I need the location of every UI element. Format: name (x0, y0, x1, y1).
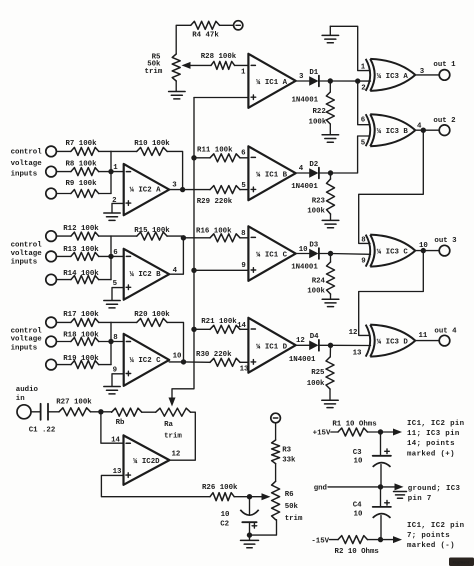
svg-text:Ra: Ra (164, 421, 173, 429)
svg-text:ground; IC3: ground; IC3 (408, 485, 461, 493)
resistor R15 100k (111, 227, 183, 274)
resistor R27 100k (56, 398, 101, 416)
svg-text:R23: R23 (312, 198, 326, 206)
svg-text:12: 12 (172, 450, 181, 458)
svg-text:5: 5 (361, 139, 366, 147)
svg-text:C3: C3 (353, 449, 362, 457)
arrow +15V distribution (381, 429, 403, 436)
svg-text:100k: 100k (307, 208, 325, 216)
ground under R25 (322, 400, 338, 407)
node gnd (378, 484, 383, 489)
svg-text:D4: D4 (310, 333, 319, 341)
node audio junction (98, 409, 103, 414)
svg-text:¼ IC3 B: ¼ IC3 B (377, 128, 409, 136)
svg-text:D3: D3 (309, 241, 318, 249)
rail node R11 (191, 155, 196, 160)
wire IC2C pin9 + ground (112, 367, 124, 387)
svg-text:11: 11 (419, 332, 428, 340)
wire C1 to R27 (48, 411, 59, 413)
svg-text:1: 1 (361, 64, 366, 72)
svg-text:IC1, IC2 pin: IC1, IC2 pin (407, 522, 464, 530)
rail node pin9 (191, 268, 196, 273)
svg-text:R26 100k: R26 100k (202, 484, 238, 492)
svg-text:¼ IC1 C: ¼ IC1 C (256, 252, 288, 260)
diode D2 1N4001 (291, 161, 319, 191)
svg-text:33k: 33k (282, 457, 296, 465)
input terminal + resistor R9 100k (46, 180, 111, 199)
resistor Rb (101, 408, 142, 427)
svg-text:6: 6 (241, 150, 246, 158)
xor gate IC3 A (361, 59, 425, 93)
audio in text (16, 386, 39, 403)
wire R28 to IC1A pin1 (235, 64, 249, 66)
svg-text:trim: trim (145, 68, 163, 76)
svg-text:9: 9 (241, 262, 245, 270)
svg-text:7; points: 7; points (407, 532, 450, 540)
node D1 (328, 78, 333, 83)
svg-text:R11 100k: R11 100k (197, 146, 233, 154)
gnd label (314, 485, 327, 493)
resistor R3 33k (272, 440, 296, 465)
svg-text:marked (-): marked (-) (407, 542, 455, 550)
terminal out 3 (434, 237, 457, 256)
svg-text:6: 6 (361, 117, 366, 125)
-15V label (311, 537, 329, 545)
resistor R30 220k (184, 351, 249, 366)
wire R4 left to R5 top (176, 25, 191, 54)
cascade wire out3 to IC3D pin12 (359, 251, 424, 336)
svg-text:3: 3 (299, 73, 304, 81)
node R16 tap (181, 235, 186, 240)
svg-text:3: 3 (172, 181, 177, 189)
svg-text:50k: 50k (285, 503, 299, 511)
svg-text:10: 10 (173, 352, 182, 360)
node line IC2A inputs (110, 151, 112, 193)
wire D2 node to IC3B pin5 (331, 136, 371, 173)
node +15V (378, 429, 383, 434)
wire IC1D output (296, 344, 310, 346)
svg-text:R9 100k: R9 100k (65, 180, 97, 188)
ground under R24 (322, 299, 339, 306)
svg-text:pin 7: pin 7 (408, 495, 432, 503)
svg-text:control: control (11, 241, 43, 249)
svg-text:¼ IC2D: ¼ IC2D (133, 458, 160, 466)
text -15V destinations (407, 522, 464, 550)
svg-text:R1 10 Ohms: R1 10 Ohms (332, 421, 376, 429)
node D2 (328, 170, 333, 175)
wire C3 to gnd node (380, 465, 382, 487)
terminal out 2 (433, 117, 455, 136)
rail arrow onto Ra wiper (169, 398, 176, 407)
resistor R23 100k (307, 173, 334, 220)
svg-text:inputs: inputs (11, 258, 38, 266)
wire IC1B output (296, 172, 310, 174)
svg-text:+15V: +15V (313, 430, 331, 438)
pin 1 label IC1A (241, 69, 246, 77)
node -15V (378, 537, 383, 542)
wire audio node to IC2D pin14 (101, 412, 124, 443)
wire C2 to ground node (249, 522, 251, 535)
svg-text:R22: R22 (312, 108, 325, 116)
svg-text:13: 13 (240, 366, 249, 374)
terminal -15V (R3) (271, 413, 281, 423)
input terminal + resistor R13 100k (46, 246, 111, 262)
svg-text:R15 100k: R15 100k (134, 227, 170, 235)
resistor R10 100k (111, 140, 183, 189)
svg-text:in: in (16, 395, 25, 403)
wire IC2B pin6 (111, 249, 124, 257)
node dot IC2A pin1 (108, 169, 113, 174)
diode D1 1N4001 (291, 69, 318, 104)
resistor R1 10 Ohms (331, 421, 381, 436)
R5 wiper arrow (182, 62, 212, 69)
diode D3 1N4001 (291, 241, 319, 271)
input terminal + resistor R12 100k (46, 225, 111, 242)
svg-text:R25: R25 (311, 369, 325, 377)
svg-text:¼ IC2 C: ¼ IC2 C (130, 357, 162, 365)
rail node R21 (191, 327, 196, 332)
resistor R6 50k trim (272, 481, 303, 523)
op-amp IC1 D (237, 318, 305, 374)
input terminal + resistor R18 100k (46, 332, 111, 347)
wire R5 bottom to ground (175, 81, 177, 91)
control voltage inputs text (1) (11, 149, 43, 179)
input terminal + resistor R17 100k (46, 311, 111, 328)
svg-text:1: 1 (241, 69, 246, 77)
wire D1 to node (320, 80, 330, 82)
op-amp IC2 B (124, 249, 178, 300)
R6 wiper arrow (250, 493, 271, 500)
svg-text:14; points: 14; points (407, 440, 455, 448)
diode D4 1N4001 (289, 333, 319, 364)
svg-text:voltage: voltage (11, 160, 43, 168)
svg-text:D1: D1 (309, 69, 318, 77)
wire IC2B pin5 + ground (112, 280, 124, 300)
svg-text:1: 1 (113, 164, 118, 172)
svg-text:¼ IC1 B: ¼ IC1 B (256, 171, 288, 179)
capacitor C2 10 (220, 497, 258, 529)
+15V label (313, 430, 331, 438)
svg-text:14: 14 (111, 436, 120, 444)
arrow -15V distribution (381, 536, 403, 543)
arrow gnd (381, 483, 404, 490)
wire D3 node to IC3C pin9 (331, 253, 371, 256)
svg-text:¼ IC3 C: ¼ IC3 C (377, 249, 409, 257)
svg-text:R20 100k: R20 100k (134, 311, 170, 319)
svg-text:control: control (11, 149, 43, 157)
wire IC1C output (296, 253, 310, 255)
svg-text:Rag2Wand: Rag2Wand (453, 561, 470, 566)
resistor R25 100k (307, 345, 334, 400)
svg-text:R24: R24 (312, 278, 326, 286)
op-amp IC1 B (241, 146, 304, 200)
potentiometer R5 50k trim (145, 53, 181, 81)
wire Rb to Ra (142, 411, 156, 413)
svg-text:11; IC3 pin: 11; IC3 pin (407, 430, 460, 438)
node line IC2B inputs (110, 236, 112, 280)
terminal out 1 (433, 61, 456, 80)
control voltage inputs text (2) (11, 241, 43, 266)
node line IC2C inputs (110, 322, 112, 364)
svg-text:inputs: inputs (11, 170, 38, 178)
wire IC2A pin1 (111, 164, 124, 172)
resistor R22 100k (309, 81, 335, 135)
resistor R16 100k (183, 228, 248, 242)
svg-text:R10 100k: R10 100k (134, 140, 170, 148)
svg-text:marked (+): marked (+) (407, 450, 455, 458)
wire IC2C pin8 (111, 334, 124, 342)
wire IC1A pin2 to rail (194, 97, 248, 99)
svg-text:IC1, IC2 pin: IC1, IC2 pin (407, 420, 464, 428)
node IC2A output (180, 187, 185, 192)
svg-text:9: 9 (113, 367, 117, 375)
resistor R20 100k (111, 311, 184, 362)
svg-text:5: 5 (113, 280, 118, 288)
svg-text:R21 100k: R21 100k (201, 318, 237, 326)
wire gnd (328, 486, 381, 488)
input terminal + resistor R8 100k (46, 161, 111, 177)
input terminal + resistor R14 100k (46, 270, 111, 285)
terminal audio in (17, 405, 31, 419)
wire IC3A output (415, 74, 439, 76)
svg-text:C4: C4 (353, 502, 362, 510)
resistor R28 100k (201, 53, 237, 69)
ground IC2C pin9 (104, 387, 120, 394)
svg-text:control: control (11, 327, 43, 335)
svg-text:1N4001: 1N4001 (291, 263, 318, 271)
potentiometer Ra trim (156, 408, 191, 440)
svg-text:out 3: out 3 (434, 237, 457, 245)
svg-text:R2 10 Ohms: R2 10 Ohms (335, 548, 379, 556)
svg-text:6: 6 (113, 249, 118, 257)
watermark (449, 558, 474, 567)
wire IC2D pin13 to R26 (101, 475, 210, 496)
op-amp IC2 A (124, 164, 178, 215)
text +15V destinations (407, 420, 464, 459)
ground rail for IC3A pin1 (330, 26, 370, 70)
resistor R11 100k (194, 146, 248, 162)
svg-text:10: 10 (221, 511, 230, 519)
svg-text:¼ IC2 B: ¼ IC2 B (130, 271, 162, 279)
svg-text:R28 100k: R28 100k (201, 53, 237, 61)
ground under R22 (322, 135, 339, 142)
svg-text:R29 220k: R29 220k (197, 198, 233, 206)
node D3 (328, 251, 333, 256)
node IC3C output (421, 248, 426, 253)
svg-text:100k: 100k (307, 288, 325, 296)
svg-text:R4 47k: R4 47k (192, 32, 219, 40)
ground under R23 (322, 220, 339, 227)
ground symbol top (322, 35, 339, 42)
svg-text:100k: 100k (307, 380, 325, 388)
svg-text:10: 10 (354, 511, 363, 519)
wire ground stub C2 (249, 535, 251, 540)
resistor R29 220k (197, 186, 249, 207)
svg-text:¼ IC3 D: ¼ IC3 D (377, 339, 409, 347)
svg-text:out 2: out 2 (433, 117, 455, 125)
svg-text:R12 100k: R12 100k (63, 225, 99, 233)
ground IC2B pin5 (104, 301, 120, 308)
svg-text:D2: D2 (309, 161, 318, 169)
svg-text:¼ IC2 A: ¼ IC2 A (130, 186, 162, 194)
op-amp IC1 A (248, 54, 304, 108)
op-amp IC2 D (111, 435, 180, 484)
svg-text:out 1: out 1 (433, 61, 456, 69)
wire R4 to -15V terminal (220, 24, 234, 26)
svg-text:10: 10 (354, 458, 363, 466)
svg-text:¼ IC3 A: ¼ IC3 A (377, 73, 409, 81)
wire R3 to -15V terminal (275, 423, 277, 440)
capacitor C1 .22 (29, 404, 56, 435)
svg-text:R18 100k: R18 100k (63, 332, 99, 340)
svg-text:R27 100k: R27 100k (56, 398, 92, 406)
svg-text:R8 100k: R8 100k (65, 161, 97, 169)
svg-text:1N4001: 1N4001 (291, 97, 318, 105)
xor gate IC3 C (361, 235, 428, 267)
wire D1 node to IC3A pin2 (330, 80, 370, 82)
ground under C2 (241, 540, 259, 547)
svg-text:¼ IC1 D: ¼ IC1 D (256, 343, 288, 351)
audio bus rail (172, 98, 194, 400)
svg-text:¼ IC1 A: ¼ IC1 A (256, 79, 288, 87)
wire D2 to node (320, 172, 331, 174)
svg-text:trim: trim (164, 433, 182, 441)
text gnd destinations (408, 485, 461, 503)
wire IC3C output (415, 250, 439, 252)
node IC2C output (181, 359, 186, 364)
svg-text:R14 100k: R14 100k (63, 270, 99, 278)
terminal out 4 (434, 327, 457, 346)
resistor R2 10 Ohms (330, 536, 381, 556)
svg-text:8: 8 (241, 230, 246, 238)
svg-text:R7 100k: R7 100k (65, 140, 97, 148)
wire D4 node to IC3D pin13 (331, 344, 371, 346)
wire D4 to node (320, 344, 331, 346)
input terminal + resistor R19 100k (46, 355, 111, 370)
svg-text:8: 8 (361, 236, 366, 244)
node C2 ground (247, 532, 252, 537)
terminal -15V (R4) (234, 21, 243, 30)
svg-text:gnd: gnd (314, 485, 327, 493)
node dot IC2C pin8 (108, 339, 113, 344)
xor gate IC3 B (361, 114, 422, 147)
svg-text:audio: audio (16, 386, 39, 394)
wire IC3B output (415, 129, 439, 131)
svg-text:out 4: out 4 (434, 327, 457, 335)
xor gate IC3 D (349, 325, 428, 358)
svg-text:R3: R3 (282, 447, 291, 455)
node IC3A pin2 (355, 78, 360, 83)
svg-text:100k: 100k (309, 118, 327, 126)
wire D3 to node (320, 253, 331, 255)
svg-text:R16 100k: R16 100k (196, 228, 232, 236)
wire IC1A output (296, 80, 310, 82)
resistor R26 100k (202, 484, 250, 501)
svg-text:10: 10 (299, 246, 308, 254)
svg-text:1N4001: 1N4001 (289, 356, 316, 364)
svg-text:13: 13 (353, 350, 362, 358)
ground IC2A pin2 (104, 213, 120, 220)
capacitor C4 10 (353, 487, 391, 519)
svg-text:inputs: inputs (11, 344, 38, 352)
svg-text:voltage: voltage (11, 335, 43, 343)
wire rail to IC1C pin9 (194, 269, 248, 271)
svg-text:R17 100k: R17 100k (63, 311, 99, 319)
capacitor C3 10 (353, 432, 391, 467)
svg-text:C1 .22: C1 .22 (29, 427, 56, 435)
node IC3B output (421, 128, 426, 133)
node R26 junction (247, 494, 252, 499)
op-amp IC2 C (124, 334, 182, 386)
cascade wire out2 to IC3C pin8 (359, 130, 424, 243)
control voltage inputs text (3) (11, 327, 43, 352)
svg-text:12: 12 (349, 329, 358, 337)
ground symbol power (394, 492, 407, 499)
svg-text:R13 100k: R13 100k (63, 246, 99, 254)
svg-text:1N4001: 1N4001 (291, 183, 318, 191)
svg-text:14: 14 (237, 322, 246, 330)
wire IC2A pin2 + ground (112, 197, 124, 213)
wire IC2A output (169, 189, 210, 191)
svg-text:12: 12 (296, 337, 305, 345)
wire R6 top to R3 (275, 464, 277, 482)
svg-text:4: 4 (299, 165, 304, 173)
svg-text:2: 2 (112, 197, 116, 205)
svg-text:C2: C2 (220, 520, 229, 528)
node D4 (328, 343, 333, 348)
ground under R5 (169, 92, 186, 99)
svg-text:R6: R6 (285, 491, 294, 499)
svg-text:5: 5 (241, 182, 246, 190)
svg-text:-15V: -15V (311, 537, 329, 545)
resistor R4 47k (191, 21, 220, 39)
op-amp IC1 C (241, 226, 308, 280)
svg-text:voltage: voltage (11, 250, 43, 258)
wire to IC3B pin6 (358, 81, 370, 125)
wire IC3D output (415, 340, 439, 342)
svg-text:Rb: Rb (116, 419, 125, 427)
svg-text:9: 9 (361, 258, 365, 266)
wire C4 to -15V node (380, 516, 382, 540)
wire Ra right to IC2D output (169, 412, 195, 460)
svg-text:R19 100k: R19 100k (63, 355, 99, 363)
node dot IC2B pin6 (108, 254, 113, 259)
svg-text:2: 2 (361, 85, 365, 93)
wire audio to C1 (31, 411, 40, 413)
resistor R21 100k (194, 318, 248, 334)
resistor R24 100k (307, 254, 334, 300)
svg-text:trim: trim (285, 515, 303, 523)
svg-text:R30 220k: R30 220k (196, 351, 232, 359)
svg-text:8: 8 (113, 334, 118, 342)
input terminal + resistor R7 100k (46, 140, 111, 157)
wire R6 bottom to ground node (250, 520, 277, 535)
